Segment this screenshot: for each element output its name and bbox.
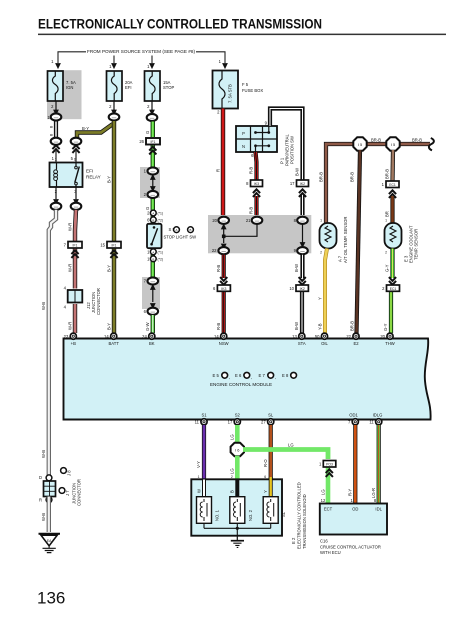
svg-text:BK: BK <box>149 341 155 346</box>
svg-text:23: 23 <box>64 334 69 339</box>
wire junction to connector 21 <box>222 225 257 244</box>
svg-text:B: B <box>230 490 235 493</box>
svg-text:TEMP. SENSOR: TEMP. SENSOR <box>414 229 419 260</box>
svg-text:IK2: IK2 <box>300 287 305 291</box>
svg-text:12: 12 <box>321 498 326 503</box>
svg-text:7: 7 <box>64 243 67 248</box>
connector below relay pin 2 (arrow) <box>51 187 62 210</box>
connector 8 on B-W <box>294 217 308 224</box>
wire: B-Y branch from EFI fuse to relay pin 5 <box>77 124 113 138</box>
svg-text:2: 2 <box>147 104 150 109</box>
svg-text:BR-B: BR-B <box>350 172 355 182</box>
svg-text:IDL: IDL <box>375 507 382 512</box>
svg-text:,: , <box>229 375 230 380</box>
wire BR from EC1 to coolant sensor <box>385 196 393 223</box>
solenoid box E2 <box>191 479 282 535</box>
svg-text:FROM POWER SOURCE SYSTEM (SEE: FROM POWER SOURCE SYSTEM (SEE PAGE #8) <box>87 49 195 55</box>
svg-text:IF1: IF1 <box>112 244 117 248</box>
svg-text:W-R: W-R <box>68 264 73 272</box>
svg-text:B: B <box>152 218 154 222</box>
svg-text:LG: LG <box>230 468 235 474</box>
svg-text:IF1: IF1 <box>73 244 78 248</box>
fuse 7.5A IGN <box>48 59 76 109</box>
wire BR-B from I5 to EC1 <box>385 150 393 181</box>
svg-text:BR: BR <box>385 211 390 217</box>
wire B-W from connector 9 to ECM pin STA <box>294 255 302 333</box>
svg-text:R-B: R-B <box>249 207 254 214</box>
wire LG from PO3 to cruise control <box>320 467 328 504</box>
wire LG horizontal branch <box>243 443 328 459</box>
label stop light switch <box>164 227 197 240</box>
connector 26 IF1 on G <box>139 138 160 154</box>
wire V-Y from ECM pin S1 to solenoid box <box>196 425 204 480</box>
svg-text:OIL: OIL <box>321 341 328 346</box>
svg-text:BATT: BATT <box>108 341 119 346</box>
fuse 20A EFI <box>107 64 133 109</box>
junction connector side marks <box>59 468 81 506</box>
shadow of fuse IGN <box>47 70 82 119</box>
wire between connectors on G-W <box>152 286 154 302</box>
svg-text:+B: +B <box>71 341 76 346</box>
svg-text:IF1: IF1 <box>151 140 156 144</box>
svg-text:C16: C16 <box>320 539 328 544</box>
fuse box F5 7.5A STB <box>213 59 264 115</box>
ECM pin 20 THW <box>380 333 394 346</box>
wire between connectors 8 and 9 <box>300 225 306 249</box>
svg-text:NO. 1: NO. 1 <box>215 509 220 521</box>
splice A below stop light switch <box>147 249 163 255</box>
connector 21 on R-B <box>246 217 262 224</box>
svg-text:1: 1 <box>198 475 200 479</box>
ground EA <box>39 534 61 553</box>
connector I6 <box>231 443 244 456</box>
svg-text:G-W: G-W <box>145 322 150 331</box>
svg-text:A: A <box>176 228 178 232</box>
svg-text:Y: Y <box>317 297 322 300</box>
wire B-W loop from switch to STA column <box>270 109 303 181</box>
label E2 solenoid <box>291 482 307 549</box>
wire Y inside box to solenoid SL <box>263 475 271 497</box>
svg-text:B-Y: B-Y <box>106 176 111 183</box>
svg-text:STA: STA <box>298 341 306 346</box>
ECM pin 14 BATT <box>104 333 119 346</box>
svg-text:S1: S1 <box>201 413 207 418</box>
arrow into fuse STOP <box>149 63 155 69</box>
ECM pin 22 E2 <box>346 333 359 346</box>
svg-text:B-Y: B-Y <box>82 126 89 131</box>
svg-text:136: 136 <box>37 589 65 608</box>
svg-text:ECT: ECT <box>324 507 333 512</box>
svg-text:R-B: R-B <box>249 167 254 174</box>
svg-text:A/T OIL TEMP. SENSOR: A/T OIL TEMP. SENSOR <box>343 217 348 263</box>
svg-text:EC1: EC1 <box>389 183 396 187</box>
svg-text:15: 15 <box>47 115 52 120</box>
svg-text:B-Y: B-Y <box>106 323 111 330</box>
ground below solenoid box <box>231 536 244 548</box>
svg-text:B: B <box>50 125 54 128</box>
A/T oil temp sensor A7 <box>320 217 349 263</box>
svg-text:BR-B: BR-B <box>371 137 381 142</box>
svg-text:W-B: W-B <box>41 302 46 310</box>
svg-text:EFI: EFI <box>86 169 93 174</box>
shadow of connector pair on G-W <box>142 277 160 309</box>
svg-text:14: 14 <box>214 334 219 339</box>
svg-text:R: R <box>39 498 42 503</box>
connector I5 left <box>353 137 366 150</box>
svg-text:ENGINE CONTROL MODULE: ENGINE CONTROL MODULE <box>210 382 272 387</box>
svg-text:(*2): (*2) <box>158 219 163 223</box>
svg-text:2: 2 <box>217 110 220 115</box>
svg-text:27: 27 <box>261 420 266 425</box>
connector 2 EC1 lower <box>382 277 399 291</box>
wire B-W to connector 8 <box>300 195 304 217</box>
svg-text:G-Y: G-Y <box>383 323 388 331</box>
park/neutral position switch P1 <box>236 121 295 167</box>
connector 6 on G-W <box>144 303 158 315</box>
ECM pin 11 S1 <box>195 413 208 425</box>
wire G-Y from coolant sensor to ECM pin THW <box>383 249 393 334</box>
svg-text:1: 1 <box>147 64 150 69</box>
connector 1 EC1 <box>382 181 399 198</box>
svg-text:W-B: W-B <box>41 513 46 521</box>
svg-text:POSITION SW: POSITION SW <box>290 136 295 164</box>
ECM pin 7 OD1 <box>348 413 359 425</box>
svg-text:26: 26 <box>139 139 144 144</box>
svg-text:BR-B: BR-B <box>412 137 422 142</box>
svg-text:6: 6 <box>144 309 147 314</box>
svg-text:J 8: J 8 <box>67 470 72 476</box>
fuse 15A STOP <box>145 64 175 109</box>
connector 9 on B-W <box>294 247 308 254</box>
svg-text:IK3: IK3 <box>221 287 226 291</box>
svg-text:15: 15 <box>100 243 105 248</box>
arrow into fuse EFI <box>111 63 117 69</box>
wire between connectors <box>152 176 154 190</box>
svg-text:I 6: I 6 <box>235 447 239 452</box>
svg-text:E 8: E 8 <box>282 373 289 378</box>
ECM pin 23 +B <box>64 333 77 346</box>
svg-text:1: 1 <box>219 59 222 64</box>
svg-text:21: 21 <box>246 218 251 223</box>
svg-text:V-Y: V-Y <box>196 461 201 468</box>
title <box>38 17 322 32</box>
svg-text:E 6: E 6 <box>235 373 242 378</box>
svg-text:(*2): (*2) <box>158 258 163 262</box>
svg-text:E 7: E 7 <box>259 373 266 378</box>
svg-text:OD: OD <box>352 507 358 512</box>
svg-text:B-Y: B-Y <box>106 265 111 272</box>
svg-text:TRANSMISSION SOLENOID: TRANSMISSION SOLENOID <box>302 494 307 549</box>
wire G from STOP fuse to stop light switch <box>145 122 153 278</box>
svg-text:WITH ECU: WITH ECU <box>320 550 341 555</box>
svg-text:17: 17 <box>290 181 295 186</box>
svg-text:,: , <box>275 375 276 380</box>
svg-text:EFI: EFI <box>125 85 132 90</box>
svg-text:A: A <box>152 212 154 216</box>
wire B inside box to solenoid no.2 <box>230 475 238 497</box>
ECM pin 50 OIL <box>315 333 329 346</box>
connector 22 on R-B <box>212 244 229 255</box>
svg-text:BR-B: BR-B <box>318 172 323 182</box>
wire: double B from IGN fuse connector <box>50 121 58 139</box>
svg-text:LG: LG <box>320 489 325 495</box>
svg-text:ELECTRONICALLY CONTROLLED TRAN: ELECTRONICALLY CONTROLLED TRANSMISSION <box>38 17 322 32</box>
svg-text:1: 1 <box>382 182 385 187</box>
svg-text:CRUISE CONTROL ACTUATOR: CRUISE CONTROL ACTUATOR <box>320 545 381 550</box>
svg-text:CONNECTOR: CONNECTOR <box>77 479 82 506</box>
ECM pin 11 IDLG <box>369 413 382 425</box>
svg-text:B-W: B-W <box>294 322 299 330</box>
ECM pin 13 STA <box>292 333 306 346</box>
svg-text:E 5: E 5 <box>213 373 220 378</box>
svg-text:IK2: IK2 <box>300 182 305 186</box>
svg-text:ELECTRONICALLY CONTROLLED: ELECTRONICALLY CONTROLLED <box>297 482 302 549</box>
svg-text:E2: E2 <box>353 341 359 346</box>
wire W inside box to solenoid no.1 <box>196 475 204 497</box>
svg-text:NO. 2: NO. 2 <box>248 509 253 521</box>
svg-text:F 5: F 5 <box>242 82 249 87</box>
wire R-O from ECM pin SL to solenoid box <box>263 425 271 480</box>
shadow panel of gray connectors row <box>208 215 311 253</box>
svg-text:(*1): (*1) <box>158 212 163 216</box>
svg-text:W-R: W-R <box>68 322 73 330</box>
svg-text:14: 14 <box>104 334 109 339</box>
svg-text:IK3: IK3 <box>254 182 259 186</box>
connector 8 IK3 on R-B <box>246 180 262 197</box>
wire Y from A/T sensor to ECM pin OIL <box>317 249 327 334</box>
relay EFI <box>50 157 101 194</box>
svg-text:10: 10 <box>289 286 294 291</box>
note: from power source system <box>87 49 195 55</box>
svg-text:1: 1 <box>319 462 322 467</box>
svg-text:W-B: W-B <box>41 450 46 458</box>
connector below relay pin 3 (arrow) <box>71 187 82 210</box>
svg-text:9: 9 <box>265 121 268 126</box>
svg-text:R-O: R-O <box>263 459 268 467</box>
ECM pin 27 SL <box>261 413 274 425</box>
svg-text:B-W: B-W <box>294 264 299 272</box>
svg-text:RELAY: RELAY <box>86 175 101 180</box>
wire R from fuse box F5 to NSW column <box>215 109 223 218</box>
wire G-W to ECM pin BK <box>145 315 153 333</box>
svg-text:CONNECTOR: CONNECTOR <box>96 288 101 315</box>
svg-text:(*1): (*1) <box>158 251 163 255</box>
solenoid no.2 <box>230 497 253 524</box>
connector 15 IF1 on B-Y <box>100 242 121 258</box>
solenoid no.1 <box>197 497 220 524</box>
svg-text:6: 6 <box>213 286 216 291</box>
connector I5 right <box>386 137 399 150</box>
svg-text:LG-R: LG-R <box>371 488 376 498</box>
wire: power feed bus <box>58 52 225 63</box>
svg-text:OD1: OD1 <box>349 413 358 418</box>
title underline <box>38 34 446 36</box>
svg-text:5: 5 <box>74 157 77 162</box>
ECM pin 14 NSW <box>214 333 229 346</box>
svg-text:1: 1 <box>350 498 353 503</box>
svg-text:50: 50 <box>315 334 320 339</box>
svg-text:LG: LG <box>230 434 235 440</box>
junction connector J7 J8 <box>39 475 56 503</box>
svg-text:LG: LG <box>288 443 294 448</box>
svg-text:2: 2 <box>385 251 387 255</box>
solenoid ground bus <box>204 523 271 535</box>
svg-text:8: 8 <box>374 498 377 503</box>
svg-text:IDLG: IDLG <box>373 413 383 418</box>
svg-text:N: N <box>242 144 245 149</box>
svg-text:1: 1 <box>320 219 322 223</box>
svg-text:G: G <box>145 131 150 134</box>
bus end break symbol <box>429 138 434 150</box>
svg-text:1: 1 <box>55 157 58 162</box>
wire W-B from relay to ground EA <box>41 210 56 475</box>
svg-text:A: A <box>152 250 154 254</box>
connector 6 IK3 on R-B lower <box>213 277 230 291</box>
connector 1 PO3 on LG branch <box>319 461 336 477</box>
svg-text:,: , <box>251 375 252 380</box>
splice B above stop light switch <box>147 217 163 223</box>
ECM pin 24 BK <box>142 333 155 346</box>
svg-text:11: 11 <box>195 420 200 425</box>
arrow into fuse IGN <box>55 63 61 69</box>
svg-text:G: G <box>145 207 150 210</box>
wire W-B lower to ground <box>41 497 49 533</box>
svg-text:P: P <box>242 131 245 136</box>
svg-text:11: 11 <box>369 420 374 425</box>
page number <box>37 589 65 608</box>
svg-text:W: W <box>196 489 201 493</box>
svg-text:SL: SL <box>268 413 274 418</box>
ECM pin 17 S2 <box>228 413 241 425</box>
connector below fuse STOP <box>147 101 158 121</box>
wire B-Y from EFI fuse to ECM pin BATT <box>106 121 114 333</box>
svg-text:2: 2 <box>382 286 385 291</box>
svg-text:SL: SL <box>281 511 286 517</box>
svg-text:PO3: PO3 <box>326 463 333 467</box>
arrow into fuse box F5 <box>222 63 228 69</box>
svg-text:2: 2 <box>109 104 112 109</box>
svg-text:1: 1 <box>109 64 112 69</box>
svg-text:R: R <box>215 169 220 172</box>
connector 7 on G-W <box>144 277 158 290</box>
svg-text:THW: THW <box>385 341 395 346</box>
svg-text:B: B <box>50 133 54 136</box>
svg-text:EC1: EC1 <box>390 287 397 291</box>
svg-text:E 2: E 2 <box>291 537 296 544</box>
connector above relay pin 1 <box>51 138 62 162</box>
splice B below stop light switch <box>147 256 163 262</box>
svg-text:STOP LIGHT SW: STOP LIGHT SW <box>164 234 197 239</box>
wire R-B from switch pin 6 <box>249 152 257 217</box>
svg-text:D: D <box>39 475 42 480</box>
svg-text:2: 2 <box>320 251 322 255</box>
connector 20 on R <box>212 217 229 230</box>
engine coolant temp sensor E3 <box>385 219 419 264</box>
svg-text:FUSE BOX: FUSE BOX <box>242 88 263 93</box>
svg-text:R-Y: R-Y <box>348 489 353 496</box>
svg-text:1: 1 <box>385 219 387 223</box>
svg-text:2: 2 <box>231 475 233 479</box>
wire BR-B from I5 to ECM pin E2 <box>350 150 360 333</box>
svg-text:22: 22 <box>346 334 351 339</box>
wire BR-B bus to sensors <box>318 137 430 223</box>
ECM engine control module <box>64 339 431 420</box>
svg-text:G-Y: G-Y <box>384 264 389 272</box>
svg-text:STOP: STOP <box>163 85 175 90</box>
wire LG-R from ECM pin IDLG to cruise control <box>371 425 379 504</box>
svg-text:S2: S2 <box>235 413 241 418</box>
solenoid SL <box>263 497 286 524</box>
svg-text:I 5: I 5 <box>358 142 362 147</box>
svg-text:R-B: R-B <box>216 323 221 330</box>
stop light switch S5 <box>147 224 162 248</box>
junction connector J12 <box>64 286 101 316</box>
svg-text:B: B <box>190 228 192 232</box>
wire R-B from connector 22 to ECM pin NSW <box>216 255 224 333</box>
connector 7 IF1 on W-R <box>64 242 82 258</box>
svg-text:20: 20 <box>380 334 385 339</box>
wire LG from ECM pin S2 <box>230 425 238 444</box>
svg-text:R-B: R-B <box>216 265 221 272</box>
connector 10 IK2 on B-W lower <box>289 277 308 291</box>
connector below fuse IGN <box>47 101 61 121</box>
svg-text:1: 1 <box>51 59 54 64</box>
wire LG from I6 to solenoid box <box>230 456 238 480</box>
svg-text:22: 22 <box>212 248 217 253</box>
wire W-R from relay pin 3 to ECM pin +B <box>68 210 77 333</box>
svg-text:6: 6 <box>264 475 266 479</box>
svg-text:7. 5A STB: 7. 5A STB <box>228 84 233 103</box>
svg-text:B: B <box>152 257 154 261</box>
svg-text:IGN: IGN <box>66 85 73 90</box>
connector below fuse EFI <box>109 101 120 121</box>
svg-text:Y: Y <box>263 490 268 493</box>
svg-text:4: 4 <box>64 305 67 310</box>
svg-text:13: 13 <box>292 334 297 339</box>
svg-text:B-W: B-W <box>295 168 300 176</box>
connector above relay pin 5 <box>71 138 82 162</box>
svg-text:I 5: I 5 <box>391 142 395 147</box>
svg-text:EA: EA <box>47 539 52 543</box>
svg-text:A 7: A 7 <box>338 255 343 262</box>
svg-text:24: 24 <box>142 334 147 339</box>
wire R-Y from ECM pin OD1 to cruise control <box>348 425 356 504</box>
svg-text:BR-B: BR-B <box>350 321 355 331</box>
shadow of connector pair on G <box>140 167 160 198</box>
cruise control actuator C16 <box>320 498 387 555</box>
svg-text:4: 4 <box>64 286 67 291</box>
svg-text:20: 20 <box>212 218 217 223</box>
svg-text:W-R: W-R <box>68 223 73 231</box>
svg-text:Y-B: Y-B <box>317 323 322 330</box>
connector 17 IK2 on B-W <box>290 180 309 197</box>
svg-text:J 7: J 7 <box>65 490 70 496</box>
connector 1 on G <box>144 167 158 180</box>
svg-text:BR-B: BR-B <box>385 169 390 179</box>
connector 2 on G <box>144 186 158 198</box>
svg-text:17: 17 <box>228 420 233 425</box>
svg-text:8: 8 <box>246 181 249 186</box>
splice A above stop light switch <box>147 210 163 216</box>
svg-text:NSW: NSW <box>219 341 229 346</box>
